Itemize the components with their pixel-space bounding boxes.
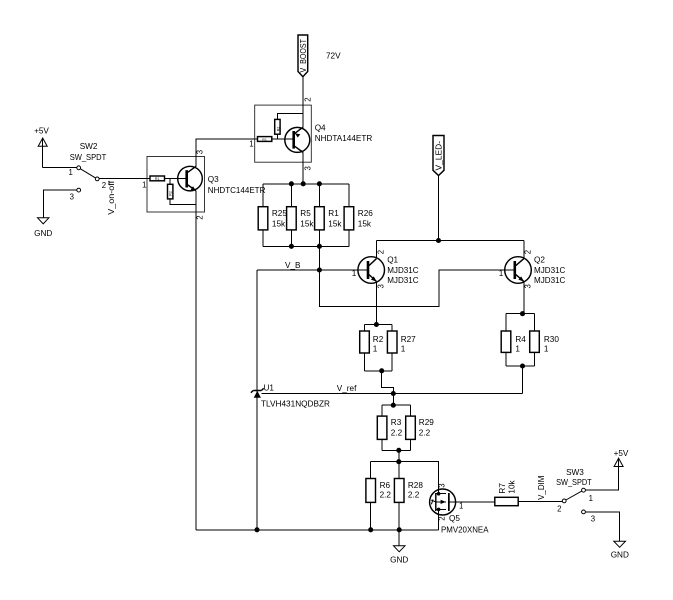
- wire bottom ground rail: [196, 529, 439, 531]
- svg-text:R30: R30: [544, 335, 559, 344]
- svg-text:SW3: SW3: [566, 468, 584, 477]
- svg-text:V_BOOST: V_BOOST: [299, 39, 308, 73]
- resistor R29 2.2: [406, 405, 416, 450]
- svg-text:Q2: Q2: [534, 255, 545, 264]
- resistor R27 1: [387, 325, 397, 371]
- wire bottom rail of 15k resistor bank: [263, 245, 349, 247]
- svg-text:3: 3: [591, 515, 595, 524]
- svg-text:+5V: +5V: [614, 449, 629, 458]
- svg-text:R1: R1: [155, 177, 160, 181]
- svg-text:V_LED-: V_LED-: [435, 141, 444, 171]
- wire top rail R3/R29: [382, 404, 410, 406]
- junction Q2 emitter at R4/R30: [520, 311, 525, 316]
- svg-text:1: 1: [544, 344, 549, 353]
- svg-text:R27: R27: [401, 335, 416, 344]
- wire bottom rail R3/R29: [382, 449, 410, 451]
- svg-text:V_B: V_B: [285, 261, 301, 270]
- wire SW2 pin 2 to Q3 input: [99, 178, 150, 180]
- resistor R4 1: [501, 314, 511, 366]
- svg-text:R6: R6: [380, 481, 391, 490]
- svg-text:R2: R2: [277, 127, 281, 132]
- svg-text:3: 3: [377, 284, 386, 288]
- ground GND (left): [34, 218, 52, 238]
- wire R4/R30 bottom down to V_ref: [522, 366, 524, 393]
- switch SW2 SW_SPDT: [70, 142, 107, 192]
- svg-text:R5: R5: [300, 209, 311, 218]
- svg-text:3: 3: [523, 284, 532, 288]
- wire Q3 emitter down to bottom rail: [195, 212, 197, 530]
- wire Q5 gate to R7: [450, 501, 495, 503]
- svg-text:2.2: 2.2: [408, 490, 420, 499]
- junction Q1 emitter at R2/R27: [374, 322, 379, 327]
- wire top rail R6/R28 to Q5 drain: [371, 462, 439, 490]
- resistor R3 2.2: [377, 405, 387, 450]
- junction Q5 body-source: [437, 508, 441, 512]
- svg-text:V_on-off: V_on-off: [107, 180, 116, 215]
- wire top rail R4/R30: [506, 313, 535, 315]
- svg-text:2: 2: [196, 215, 205, 219]
- junction R6/R28 top: [396, 459, 401, 464]
- svg-text:Q5: Q5: [449, 514, 460, 523]
- resistor R7 10k: [495, 479, 518, 505]
- junction node V_B: [317, 267, 322, 272]
- switch SW3 SW_SPDT: [556, 468, 592, 514]
- junction R4/R30 bottom: [520, 363, 525, 368]
- svg-text:Q3: Q3: [208, 175, 219, 184]
- wire V_LED- to collector rail: [438, 176, 440, 241]
- junction bank top at R1: [317, 181, 322, 186]
- junction R2/R27 bottom: [379, 368, 384, 373]
- power tag V_LED-: [433, 136, 444, 176]
- junction bank bottom at R1: [317, 244, 322, 249]
- svg-text:Q1: Q1: [387, 255, 398, 264]
- svg-text:3: 3: [196, 150, 205, 154]
- svg-text:3: 3: [70, 193, 74, 202]
- svg-text:2: 2: [557, 505, 561, 514]
- wire SW3 pin 1 to +5V: [585, 466, 618, 490]
- svg-text:15k: 15k: [358, 219, 372, 228]
- ground GND (middle): [390, 530, 408, 565]
- svg-text:R1: R1: [328, 209, 339, 218]
- transistor Q4 NHDTA144ETR (digital PNP): [255, 105, 312, 162]
- ground GND (right): [611, 541, 629, 560]
- resistor R1 15k: [315, 184, 343, 247]
- svg-text:R2: R2: [373, 335, 384, 344]
- resistor R2 1: [360, 325, 370, 371]
- svg-text:72V: 72V: [326, 51, 341, 60]
- resistor R6 2.2: [366, 462, 376, 530]
- svg-text:R28: R28: [408, 481, 423, 490]
- junction R3/R29 top: [391, 403, 396, 408]
- svg-text:MJD31C: MJD31C: [387, 266, 418, 275]
- wire bottom rail R4/R30: [506, 365, 535, 367]
- wire bottom rail R2/R27: [365, 370, 393, 372]
- svg-text:GND: GND: [34, 229, 52, 238]
- shunt reference U1 TLVH431NQDBZR: [251, 388, 264, 530]
- svg-text:1: 1: [68, 168, 72, 177]
- svg-text:1: 1: [249, 139, 253, 148]
- svg-text:Q4: Q4: [315, 124, 326, 133]
- wire +5V to SW2 pin 1: [43, 167, 77, 169]
- svg-text:R25: R25: [272, 209, 287, 218]
- power symbol +5V (left): [34, 127, 49, 168]
- svg-text:15k: 15k: [272, 219, 286, 228]
- svg-text:MJD31C: MJD31C: [387, 276, 418, 285]
- resistor R25 15k: [258, 184, 287, 247]
- junction V_LED- at collector rail: [436, 238, 441, 243]
- svg-text:V_DIM: V_DIM: [537, 475, 546, 499]
- svg-text:1: 1: [373, 344, 378, 353]
- svg-text:NHDTC144ETR: NHDTC144ETR: [208, 186, 266, 195]
- svg-text:2: 2: [377, 250, 386, 254]
- junction bank top at Q4 feed: [301, 181, 306, 186]
- svg-text:SW_SPDT: SW_SPDT: [70, 153, 107, 162]
- wire SW2 pin 3 to GND: [43, 190, 77, 218]
- svg-text:2: 2: [437, 516, 446, 520]
- svg-text:1: 1: [589, 494, 593, 503]
- svg-text:SW2: SW2: [80, 142, 98, 151]
- svg-text:1: 1: [401, 344, 406, 353]
- transistor Q2 MJD31C: [505, 241, 532, 314]
- svg-text:1: 1: [499, 269, 503, 278]
- svg-text:2: 2: [523, 250, 532, 254]
- junction node V_ref: [391, 391, 396, 396]
- transistor Q5 PMV20XNEA (N-MOSFET): [430, 489, 456, 530]
- resistor R26 15k: [344, 184, 373, 247]
- wire R3/R29 to R6/R28: [398, 450, 400, 461]
- transistor Q1 MJD31C: [358, 241, 385, 325]
- wire V_ref horizontal: [262, 392, 523, 394]
- svg-text:R7: R7: [498, 483, 507, 494]
- svg-text:TLVH431NQDBZR: TLVH431NQDBZR: [261, 399, 330, 408]
- wire V_BOOST to Q4 pin 2: [302, 77, 304, 105]
- svg-text:2.2: 2.2: [380, 490, 392, 499]
- transistor Q3 NHDTC144ETR (digital NPN): [147, 157, 205, 213]
- svg-text:MJD31C: MJD31C: [534, 276, 565, 285]
- power tag V_BOOST: [298, 35, 308, 77]
- junction Q5 body-drain: [437, 492, 441, 496]
- wire SW3 pin 3 to GND: [585, 512, 619, 541]
- svg-text:1: 1: [459, 501, 463, 510]
- wire V_B detour to Q2 base: [319, 270, 514, 306]
- svg-text:PMV20XNEA: PMV20XNEA: [441, 525, 489, 534]
- svg-text:R29: R29: [419, 418, 434, 427]
- svg-text:1: 1: [142, 181, 146, 190]
- junction U1 anode at ground rail: [254, 527, 259, 532]
- svg-text:15k: 15k: [328, 219, 342, 228]
- svg-text:1: 1: [515, 344, 520, 353]
- svg-text:SW_SPDT: SW_SPDT: [556, 478, 592, 487]
- svg-text:V_ref: V_ref: [337, 384, 357, 393]
- wire Q3 collector to Q4 input: [196, 139, 258, 156]
- power symbol +5V (right): [614, 449, 629, 490]
- svg-text:2.2: 2.2: [419, 429, 431, 438]
- resistor R28 2.2: [394, 462, 404, 530]
- wire V_B down to U1 cathode: [256, 270, 258, 391]
- wire collector rail Q1-Q2: [376, 240, 523, 242]
- svg-text:+5V: +5V: [34, 127, 49, 136]
- wire R2/R27 bottom jog to V_ref: [382, 371, 394, 394]
- svg-text:3: 3: [303, 166, 312, 170]
- junction R28 at ground rail: [397, 527, 402, 532]
- svg-text:GND: GND: [390, 555, 408, 564]
- junction bank top at R5: [289, 181, 294, 186]
- svg-text:R1: R1: [262, 138, 267, 142]
- svg-text:R26: R26: [358, 209, 373, 218]
- svg-text:MJD31C: MJD31C: [534, 266, 565, 275]
- resistor R30 1: [530, 314, 540, 366]
- svg-text:2: 2: [303, 97, 312, 101]
- wire V_ref down to R3/R29: [392, 394, 394, 406]
- wire bank bottom to V_B node: [318, 246, 320, 270]
- svg-text:10k: 10k: [508, 479, 517, 493]
- svg-text:R2: R2: [168, 191, 172, 196]
- svg-text:NHDTA144ETR: NHDTA144ETR: [315, 134, 373, 143]
- wire R7 to SW3 pin 2: [518, 501, 562, 503]
- svg-text:15k: 15k: [300, 219, 314, 228]
- resistor R5 15k: [287, 184, 315, 247]
- junction bank bottom at R5: [289, 244, 294, 249]
- svg-text:1: 1: [352, 269, 356, 278]
- svg-text:U1: U1: [264, 383, 275, 392]
- svg-text:R3: R3: [391, 418, 402, 427]
- svg-text:2.2: 2.2: [391, 429, 403, 438]
- wire Q4 collector to resistor bank: [302, 162, 304, 184]
- svg-text:2: 2: [102, 181, 106, 190]
- svg-text:3: 3: [437, 483, 446, 487]
- wire top rail of 15k resistor bank: [263, 183, 349, 185]
- svg-text:GND: GND: [611, 551, 629, 560]
- svg-text:R4: R4: [515, 335, 526, 344]
- junction R6 at ground rail: [368, 527, 373, 532]
- wire V_B horizontal: [257, 269, 367, 271]
- junction R3/R29 bottom: [396, 448, 401, 453]
- wire top rail R2/R27: [365, 324, 393, 326]
